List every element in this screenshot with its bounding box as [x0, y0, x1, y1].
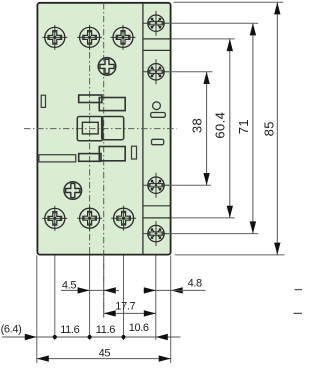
dim 45: [37, 355, 171, 361]
cropped dimension stub right margin upper: [295, 289, 303, 291]
extension line col3: [123, 256, 125, 341]
extension line col2: [89, 256, 91, 341]
long left slot: [39, 155, 76, 162]
center rounded square: [77, 117, 103, 141]
leader line screw2 (38 top): [166, 71, 213, 73]
contactor body outline: [37, 3, 170, 255]
svg-text:17.7: 17.7: [115, 301, 135, 313]
dim line 60.4: [227, 39, 233, 218]
svg-text:11.6: 11.6: [96, 324, 115, 336]
leader line screw4 (71 bottom): [166, 233, 258, 235]
leader line top edge (85): [174, 1, 284, 3]
top-left slot: [41, 95, 45, 107]
terminal strip left edge line: [142, 3, 144, 255]
strip slot rect: [152, 139, 164, 144]
extension line col1: [54, 256, 56, 341]
svg-text:71: 71: [236, 119, 251, 134]
leader line screw3 (38 bottom): [166, 184, 211, 186]
coil icon circle: [153, 102, 161, 110]
screw bottom row 3: [111, 206, 136, 231]
strip divider bottom 1: [143, 205, 170, 207]
center inner rect: [82, 122, 98, 134]
extension line left edge: [36, 256, 38, 364]
svg-text:4.5: 4.5: [62, 279, 76, 291]
horizontal centerline: [24, 128, 177, 130]
center right rounded rect: [102, 117, 124, 140]
strip divider top 2: [143, 49, 170, 51]
strip screw 1: [143, 11, 169, 36]
bottom-right small slot: [132, 146, 137, 159]
screw top row 1: [42, 25, 67, 50]
strip screw 2: [143, 59, 169, 84]
svg-text:45: 45: [99, 348, 111, 360]
extension line strip center: [155, 256, 157, 341]
cropped dimension stub right margin lower: [294, 312, 303, 314]
strip screw 4: [143, 221, 169, 246]
svg-text:(6.4): (6.4): [1, 324, 22, 336]
extension line right edge: [170, 256, 172, 364]
screw bottom row 1: [42, 206, 67, 231]
svg-text:10.6: 10.6: [129, 322, 149, 334]
dim 4.5: [61, 287, 119, 293]
lower Z bar: [79, 154, 101, 162]
leader line bottom edge (85): [175, 254, 285, 256]
strip divider top 1: [143, 38, 170, 40]
lower Z rect: [99, 147, 125, 161]
plain cross screw lower: [64, 182, 82, 200]
screw top row 2: [77, 25, 102, 50]
dim line 85: [274, 2, 280, 255]
coil icon bar: [151, 113, 166, 118]
svg-text:38: 38: [190, 118, 205, 133]
vertical centerline A: [103, 3, 105, 318]
leader line screw1 (71): [166, 22, 258, 24]
svg-text:4.8: 4.8: [188, 278, 202, 290]
svg-text:11.6: 11.6: [60, 324, 79, 336]
dim line 38: [203, 72, 209, 185]
pole pitch line with dots: [2, 334, 180, 340]
upper Z bar: [79, 95, 102, 103]
upper Z rect: [99, 98, 125, 111]
screw top row 3: [111, 25, 136, 50]
vertical centerline B: [89, 26, 91, 256]
screw bottom row 2: [77, 206, 102, 231]
extension line centerline A: [103, 256, 105, 318]
plain cross screw upper: [98, 58, 116, 76]
strip screw 3: [143, 173, 169, 198]
leader line divider (60.4 bottom): [171, 217, 235, 219]
svg-text:85: 85: [262, 121, 277, 136]
dim 4.8: [144, 287, 206, 293]
dim 17.7: [104, 310, 156, 316]
svg-text:60.4: 60.4: [213, 112, 228, 139]
leader line divider (60.4 top): [171, 38, 235, 40]
dim line 71: [250, 23, 256, 233]
strip divider bottom 2: [143, 217, 170, 219]
